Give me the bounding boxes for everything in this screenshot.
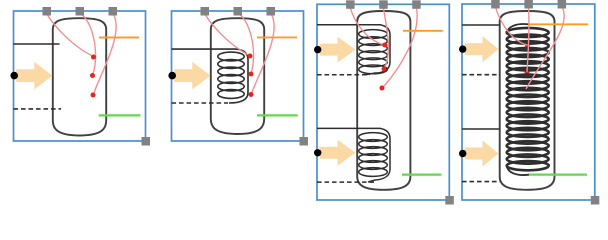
handle P3 top-right — [412, 0, 421, 9]
handle P1 top-right — [109, 7, 118, 16]
coil top connector P4 — [507, 24, 529, 33]
coil2 outlet (dashed) P3 — [317, 181, 374, 183]
green port line P3 — [402, 173, 441, 175]
large coil rings P4 — [507, 28, 549, 170]
handle P1 top-left — [43, 7, 52, 16]
outlet line 2 (dashed) P4 — [462, 181, 500, 183]
selection frame P2 — [172, 11, 304, 141]
sensor dot B P4 — [525, 70, 530, 75]
outlet line (dashed) P1 — [14, 108, 62, 110]
sensor wire 3 P2 — [252, 13, 275, 94]
sensor wire 3 P4 — [526, 6, 564, 89]
flow arrow 2 P4 — [465, 141, 499, 167]
node dot P1 — [10, 72, 18, 80]
orange port line P1 — [99, 37, 139, 39]
sensor wire 3 P1 — [94, 13, 117, 95]
handle P2 top-right — [267, 7, 276, 16]
coil bottom turn P4 — [507, 166, 529, 176]
handle P4 top-left — [491, 0, 500, 9]
handle P3 top-left — [346, 0, 355, 9]
coil outlet line (dashed) P2 — [172, 102, 229, 104]
handle P3 top-mid — [379, 0, 388, 9]
inlet line 2 (solid) P4 — [462, 128, 500, 130]
coil HX P2 rings — [218, 52, 244, 98]
sensor wire 2 P2 — [238, 13, 254, 75]
orange port line P3 — [403, 30, 443, 32]
sensor dot C P2 — [249, 92, 254, 97]
green port line P2 — [257, 114, 298, 116]
sensor wire 1 P4 — [495, 6, 527, 45]
inlet line 1 (solid) P4 — [462, 24, 500, 26]
handle P2 top-left — [201, 7, 210, 16]
flow arrow 2 P3 — [320, 140, 356, 166]
handle P4 corner — [591, 196, 600, 205]
sensor dot C P4 — [524, 87, 529, 92]
coil2 rings P3 — [359, 133, 388, 177]
inlet line (solid) P1 — [14, 43, 60, 45]
green port line P4 — [529, 173, 587, 175]
sensor wire 2 P3 — [383, 7, 388, 70]
sensor dot C P3 — [380, 86, 385, 91]
tank T4 — [500, 11, 555, 190]
sensor dot A P2 — [248, 54, 253, 59]
sensor dot A P3 — [382, 43, 387, 48]
sensor dot C P1 — [91, 93, 96, 98]
node dot 1 P4 — [459, 45, 466, 52]
outlet line 1 (dashed) P4 — [462, 74, 500, 76]
coil inlet line (solid) P2 — [172, 49, 249, 103]
sensor wire 3 P3 — [383, 7, 418, 89]
node dot 2 P4 — [459, 150, 466, 157]
sensor dot A P1 — [91, 55, 96, 60]
tank T2 — [211, 18, 264, 134]
handle P1 top-mid — [76, 7, 85, 16]
sensor wire 1 P1 — [47, 13, 94, 57]
green port line P1 — [99, 114, 141, 116]
sensor dot B P2 — [249, 72, 254, 77]
sensor wire 1 P2 — [205, 13, 252, 57]
handle P4 top-mid — [524, 0, 533, 9]
sensor dot B P1 — [90, 73, 95, 78]
flow arrow P2 — [174, 62, 210, 90]
coil2 inlet+envelope P3 — [317, 128, 390, 182]
handle P2 corner — [300, 137, 309, 146]
selection frame P4 — [462, 4, 595, 200]
sensor wire 2 P1 — [80, 13, 96, 75]
coil1 rings P3 — [359, 30, 388, 74]
orange port line P2 — [257, 36, 297, 38]
node dot P2 — [168, 72, 176, 80]
handle P4 top-right — [558, 0, 567, 9]
flow arrow P1 — [16, 62, 52, 90]
sensor dot B P3 — [382, 67, 387, 72]
flow arrow 1 P4 — [465, 36, 499, 62]
handle P1 corner — [142, 137, 151, 146]
selection frame P3 — [317, 4, 449, 200]
coil1 inlet+envelope P3 — [317, 25, 390, 75]
coil1 outlet (dashed) P3 — [317, 74, 370, 76]
sensor wire 2 P4 — [527, 6, 529, 72]
tank T1 — [53, 18, 106, 135]
sensor wire 1 P3 — [350, 7, 385, 46]
node dot 2 P3 — [314, 149, 321, 156]
tank T3 — [357, 11, 410, 190]
orange port line P4 — [528, 23, 588, 25]
sensor dot A P4 — [525, 43, 530, 48]
handle P2 top-mid — [234, 7, 243, 16]
handle P3 corner — [445, 196, 454, 205]
selection frame P1 — [14, 11, 146, 141]
node dot 1 P3 — [314, 46, 321, 53]
flow arrow 1 P3 — [320, 37, 356, 63]
